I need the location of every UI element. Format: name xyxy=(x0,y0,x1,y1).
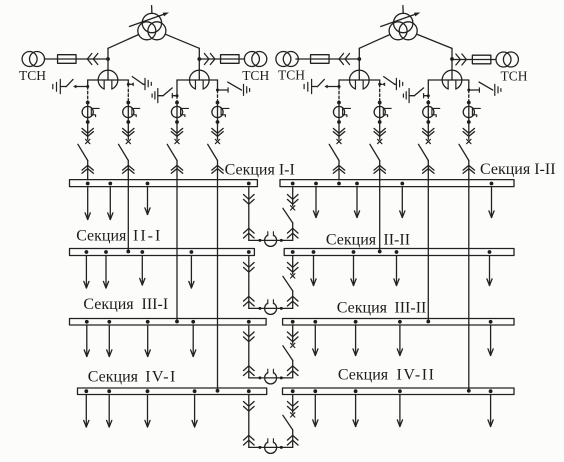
svg-text:Секция: Секция xyxy=(337,300,388,317)
wire LR4 leads xyxy=(428,79,469,81)
label section II-I xyxy=(76,228,162,245)
reactor LR2 (duplex, left half right) xyxy=(190,48,210,91)
station service transformer TCH2 feeder (left half right) xyxy=(199,52,267,67)
svg-text:II-II: II-II xyxy=(383,232,410,249)
chain 1 (breaker cell to bus I-I) xyxy=(53,79,99,179)
bus II-I xyxy=(70,249,255,256)
svg-text:ТСН: ТСН xyxy=(19,68,46,83)
bus tie I (sections I-I / I-II with reactor) xyxy=(244,188,299,247)
transformer T2 (three-winding, right, with OLTC arrow) xyxy=(381,6,421,40)
svg-text:III-I: III-I xyxy=(142,296,169,313)
bus III-II xyxy=(283,319,514,326)
node dots on bus II-I xyxy=(85,250,251,254)
station service transformer TCH4 feeder (right edge) xyxy=(452,52,518,67)
feeder arrows below bus III-II xyxy=(313,325,494,356)
bus IV-II xyxy=(283,388,515,395)
reactor LR3 (duplex, right half left) xyxy=(350,48,370,91)
node dots on bus IV-I xyxy=(84,389,250,393)
bus II-II xyxy=(284,249,514,256)
svg-text:II-I: II-I xyxy=(133,228,162,245)
svg-text:Секция: Секция xyxy=(83,296,134,313)
bus III-I xyxy=(70,319,267,326)
chain 3 (breaker cell to bus III-I) xyxy=(152,80,188,323)
reactor LR4 (duplex, right half right) xyxy=(442,48,462,91)
label section IV-II xyxy=(338,366,436,383)
node dots on bus III-I xyxy=(85,320,251,324)
node dots on bus I-I xyxy=(86,182,251,186)
wire LR1 leads xyxy=(88,79,129,81)
svg-text:ТСН: ТСН xyxy=(278,68,305,83)
svg-text:Секция: Секция xyxy=(88,369,139,386)
feeder arrows below bus I-II xyxy=(313,188,494,218)
feeder arrows below bus II-II xyxy=(311,256,492,286)
bus I-II xyxy=(280,180,514,187)
node dots on bus III-II xyxy=(291,320,493,324)
chain 7 (breaker cell to bus III-II) xyxy=(403,80,439,323)
chain 2 (breaker cell to bus II-I) xyxy=(119,77,152,254)
wire LR3 leads xyxy=(339,79,380,81)
feeder arrows below bus IV-II xyxy=(313,395,494,427)
feeder arrows below bus III-I xyxy=(84,325,196,357)
wire T2 to corners (diagonals) xyxy=(359,34,452,48)
bus tie III (sections III-I / III-II with reactor) xyxy=(244,325,299,384)
chain 5 (breaker cell to bus I-II) xyxy=(304,79,350,179)
bus IV-I xyxy=(78,388,267,395)
wire LR2 leads xyxy=(177,79,218,81)
transformer T1 (three-winding, left, with OLTC arrow) xyxy=(129,6,169,40)
svg-text:Секция I-II: Секция I-II xyxy=(480,161,556,178)
chain 8 (breaker cell to bus IV-II) xyxy=(459,80,501,393)
feeder arrows below bus I-I xyxy=(85,188,150,220)
svg-text:Секция I-I: Секция I-I xyxy=(225,161,295,178)
node dots on bus IV-II xyxy=(291,389,493,393)
svg-text:IV-I: IV-I xyxy=(145,369,176,386)
bus tie II (sections II-I / II-II with reactor) xyxy=(244,256,299,315)
label section IV-I xyxy=(88,369,177,386)
label section III-II xyxy=(337,300,427,317)
reactor LR1 (duplex, left half left) xyxy=(98,48,118,91)
node dots on bus I-II xyxy=(291,182,494,186)
label section II-II xyxy=(326,232,410,249)
chain 4 (breaker cell to bus IV-I) xyxy=(208,80,250,393)
chain 6 (breaker cell to bus II-II) xyxy=(370,77,403,254)
svg-text:ТСН: ТСН xyxy=(501,69,528,84)
feeder arrows below bus IV-I xyxy=(84,395,197,428)
label section III-I xyxy=(83,296,168,313)
svg-text:ТСН: ТСН xyxy=(242,68,269,83)
svg-text:III-II: III-II xyxy=(394,300,426,317)
svg-text:Секция: Секция xyxy=(76,228,127,245)
bus tie IV (sections IV-I / IV-II with reactor) xyxy=(244,395,299,454)
feeder arrows below bus II-I xyxy=(84,256,194,289)
svg-text:Секция: Секция xyxy=(326,232,377,249)
station service transformer TCH3 feeder (right half left) xyxy=(276,52,359,67)
svg-text:IV-II: IV-II xyxy=(397,366,436,383)
node dots on bus II-II xyxy=(291,250,492,254)
station service transformer TCH1 feeder (left edge) xyxy=(22,52,108,67)
bus I-I xyxy=(70,180,258,187)
svg-text:Секция: Секция xyxy=(338,366,389,383)
wire T1 to corners (diagonals) xyxy=(108,34,199,48)
